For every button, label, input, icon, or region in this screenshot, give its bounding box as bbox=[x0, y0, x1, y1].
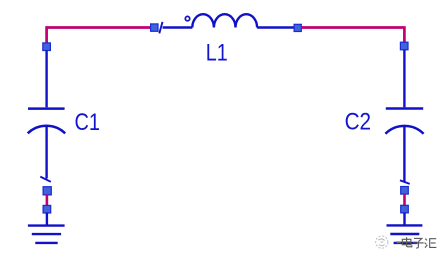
svg-text:C1: C1 bbox=[75, 109, 101, 136]
junction square upper (left ground link) bbox=[43, 187, 51, 195]
wire: C2 upper lead (blue) bbox=[403, 50, 405, 108]
watermark text 电子汇 (drawn strokes) bbox=[402, 237, 436, 248]
inductor L1 polarity dot circle bbox=[185, 16, 189, 20]
node B junction square (top of C2) bbox=[400, 42, 408, 50]
ground symbol right bbox=[387, 225, 423, 243]
watermark dash bbox=[397, 241, 401, 243]
capacitor C2 curved plate bbox=[385, 126, 423, 134]
wire: blue stub to left ground bbox=[46, 213, 48, 226]
glyph 子 bbox=[413, 238, 424, 248]
junction square lower (right ground link) bbox=[401, 205, 409, 213]
wire: L1 left lead bbox=[163, 26, 193, 28]
junction square lower (left ground link) bbox=[43, 205, 51, 213]
glyph 电 bbox=[402, 237, 412, 247]
svg-text:C2: C2 bbox=[345, 109, 372, 136]
junction square upper (right ground link) bbox=[401, 187, 409, 195]
wire net OUT: magenta top-right corner run bbox=[301, 28, 404, 43]
capacitor C1 top plate bbox=[28, 107, 65, 110]
node A junction square (top of C1) bbox=[43, 43, 51, 51]
wire: C1 lower lead (blue) bbox=[45, 127, 47, 179]
tick mark at L1 pin 1 bbox=[159, 22, 162, 34]
junction square (left pin of L1) bbox=[151, 24, 158, 31]
wire: blue stub to right ground bbox=[403, 213, 405, 226]
glyph 汇 bbox=[425, 239, 437, 248]
wire: C1 upper lead (blue) bbox=[45, 51, 47, 108]
wire net IN: magenta top-left corner run bbox=[47, 28, 151, 44]
wire: L1 right lead bbox=[257, 26, 294, 28]
capacitor C1 curved plate bbox=[28, 126, 65, 134]
svg-text:L1: L1 bbox=[206, 40, 228, 67]
wire: magenta stub (right ground link) bbox=[403, 194, 406, 206]
tick mark on C2 lower wire bbox=[400, 180, 410, 184]
ground symbol left bbox=[28, 226, 65, 243]
watermark logo circle bbox=[376, 236, 388, 248]
wire: magenta stub (left ground link) bbox=[46, 194, 49, 205]
wire: C2 lower lead (blue) bbox=[403, 127, 405, 182]
capacitor C2 top plate bbox=[386, 107, 423, 110]
junction square (right pin of L1) bbox=[294, 24, 301, 31]
tick mark on C1 lower wire bbox=[40, 177, 51, 182]
inductor L1 coil bbox=[192, 14, 257, 27]
